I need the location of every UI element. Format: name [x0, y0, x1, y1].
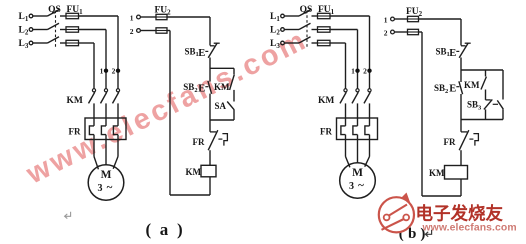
svg-text:3: 3	[349, 181, 354, 192]
svg-text:L2: L2	[270, 26, 280, 37]
svg-text:SB1: SB1	[185, 46, 199, 58]
svg-text:( a ): ( a )	[146, 220, 185, 239]
svg-text:电子发烧友: 电子发烧友	[416, 203, 504, 223]
svg-text:SA: SA	[215, 101, 227, 111]
svg-text:SB1: SB1	[436, 46, 450, 58]
svg-text:SB2: SB2	[183, 82, 197, 94]
svg-text:M: M	[352, 167, 363, 179]
svg-text:QS: QS	[48, 5, 61, 15]
svg-text:L1: L1	[19, 12, 29, 23]
svg-text:~: ~	[107, 182, 113, 194]
svg-text:FU2: FU2	[406, 7, 423, 18]
svg-text:1: 1	[351, 66, 355, 75]
svg-text:L2: L2	[19, 26, 29, 37]
svg-text:KM: KM	[67, 96, 83, 106]
svg-text:KM: KM	[186, 167, 202, 177]
svg-text:M: M	[101, 169, 112, 181]
svg-text:1: 1	[130, 13, 134, 22]
svg-text:1: 1	[384, 15, 388, 24]
svg-text:QS: QS	[300, 5, 313, 15]
svg-text:SB2: SB2	[434, 83, 448, 95]
svg-text:E: E	[449, 83, 456, 94]
svg-text:FR: FR	[69, 126, 81, 136]
svg-text:2: 2	[130, 27, 134, 36]
svg-text:L3: L3	[270, 39, 280, 50]
svg-text:FR: FR	[193, 137, 205, 147]
svg-text:L1: L1	[270, 12, 280, 23]
svg-text:1: 1	[100, 66, 104, 75]
svg-text:SB3: SB3	[467, 100, 482, 112]
svg-text:2: 2	[363, 66, 367, 75]
svg-text:KM: KM	[464, 80, 480, 90]
svg-text:FU2: FU2	[155, 6, 172, 17]
svg-text:www.elecfans.com: www.elecfans.com	[422, 223, 517, 234]
svg-text:KM: KM	[429, 168, 445, 178]
svg-text:E: E	[198, 48, 205, 59]
svg-text:E: E	[449, 48, 456, 59]
svg-text:FU1: FU1	[67, 5, 84, 16]
svg-text:E: E	[198, 83, 205, 94]
svg-text:3: 3	[98, 183, 103, 194]
svg-text:FU1: FU1	[318, 5, 335, 16]
svg-text:2: 2	[384, 28, 388, 37]
svg-text:L3: L3	[19, 39, 29, 50]
svg-text:KM: KM	[318, 96, 334, 106]
svg-text:FR: FR	[320, 126, 332, 136]
svg-text:KM: KM	[214, 82, 230, 92]
svg-text:FR: FR	[444, 137, 456, 147]
svg-text:2: 2	[112, 66, 116, 75]
svg-text:~: ~	[358, 180, 364, 192]
